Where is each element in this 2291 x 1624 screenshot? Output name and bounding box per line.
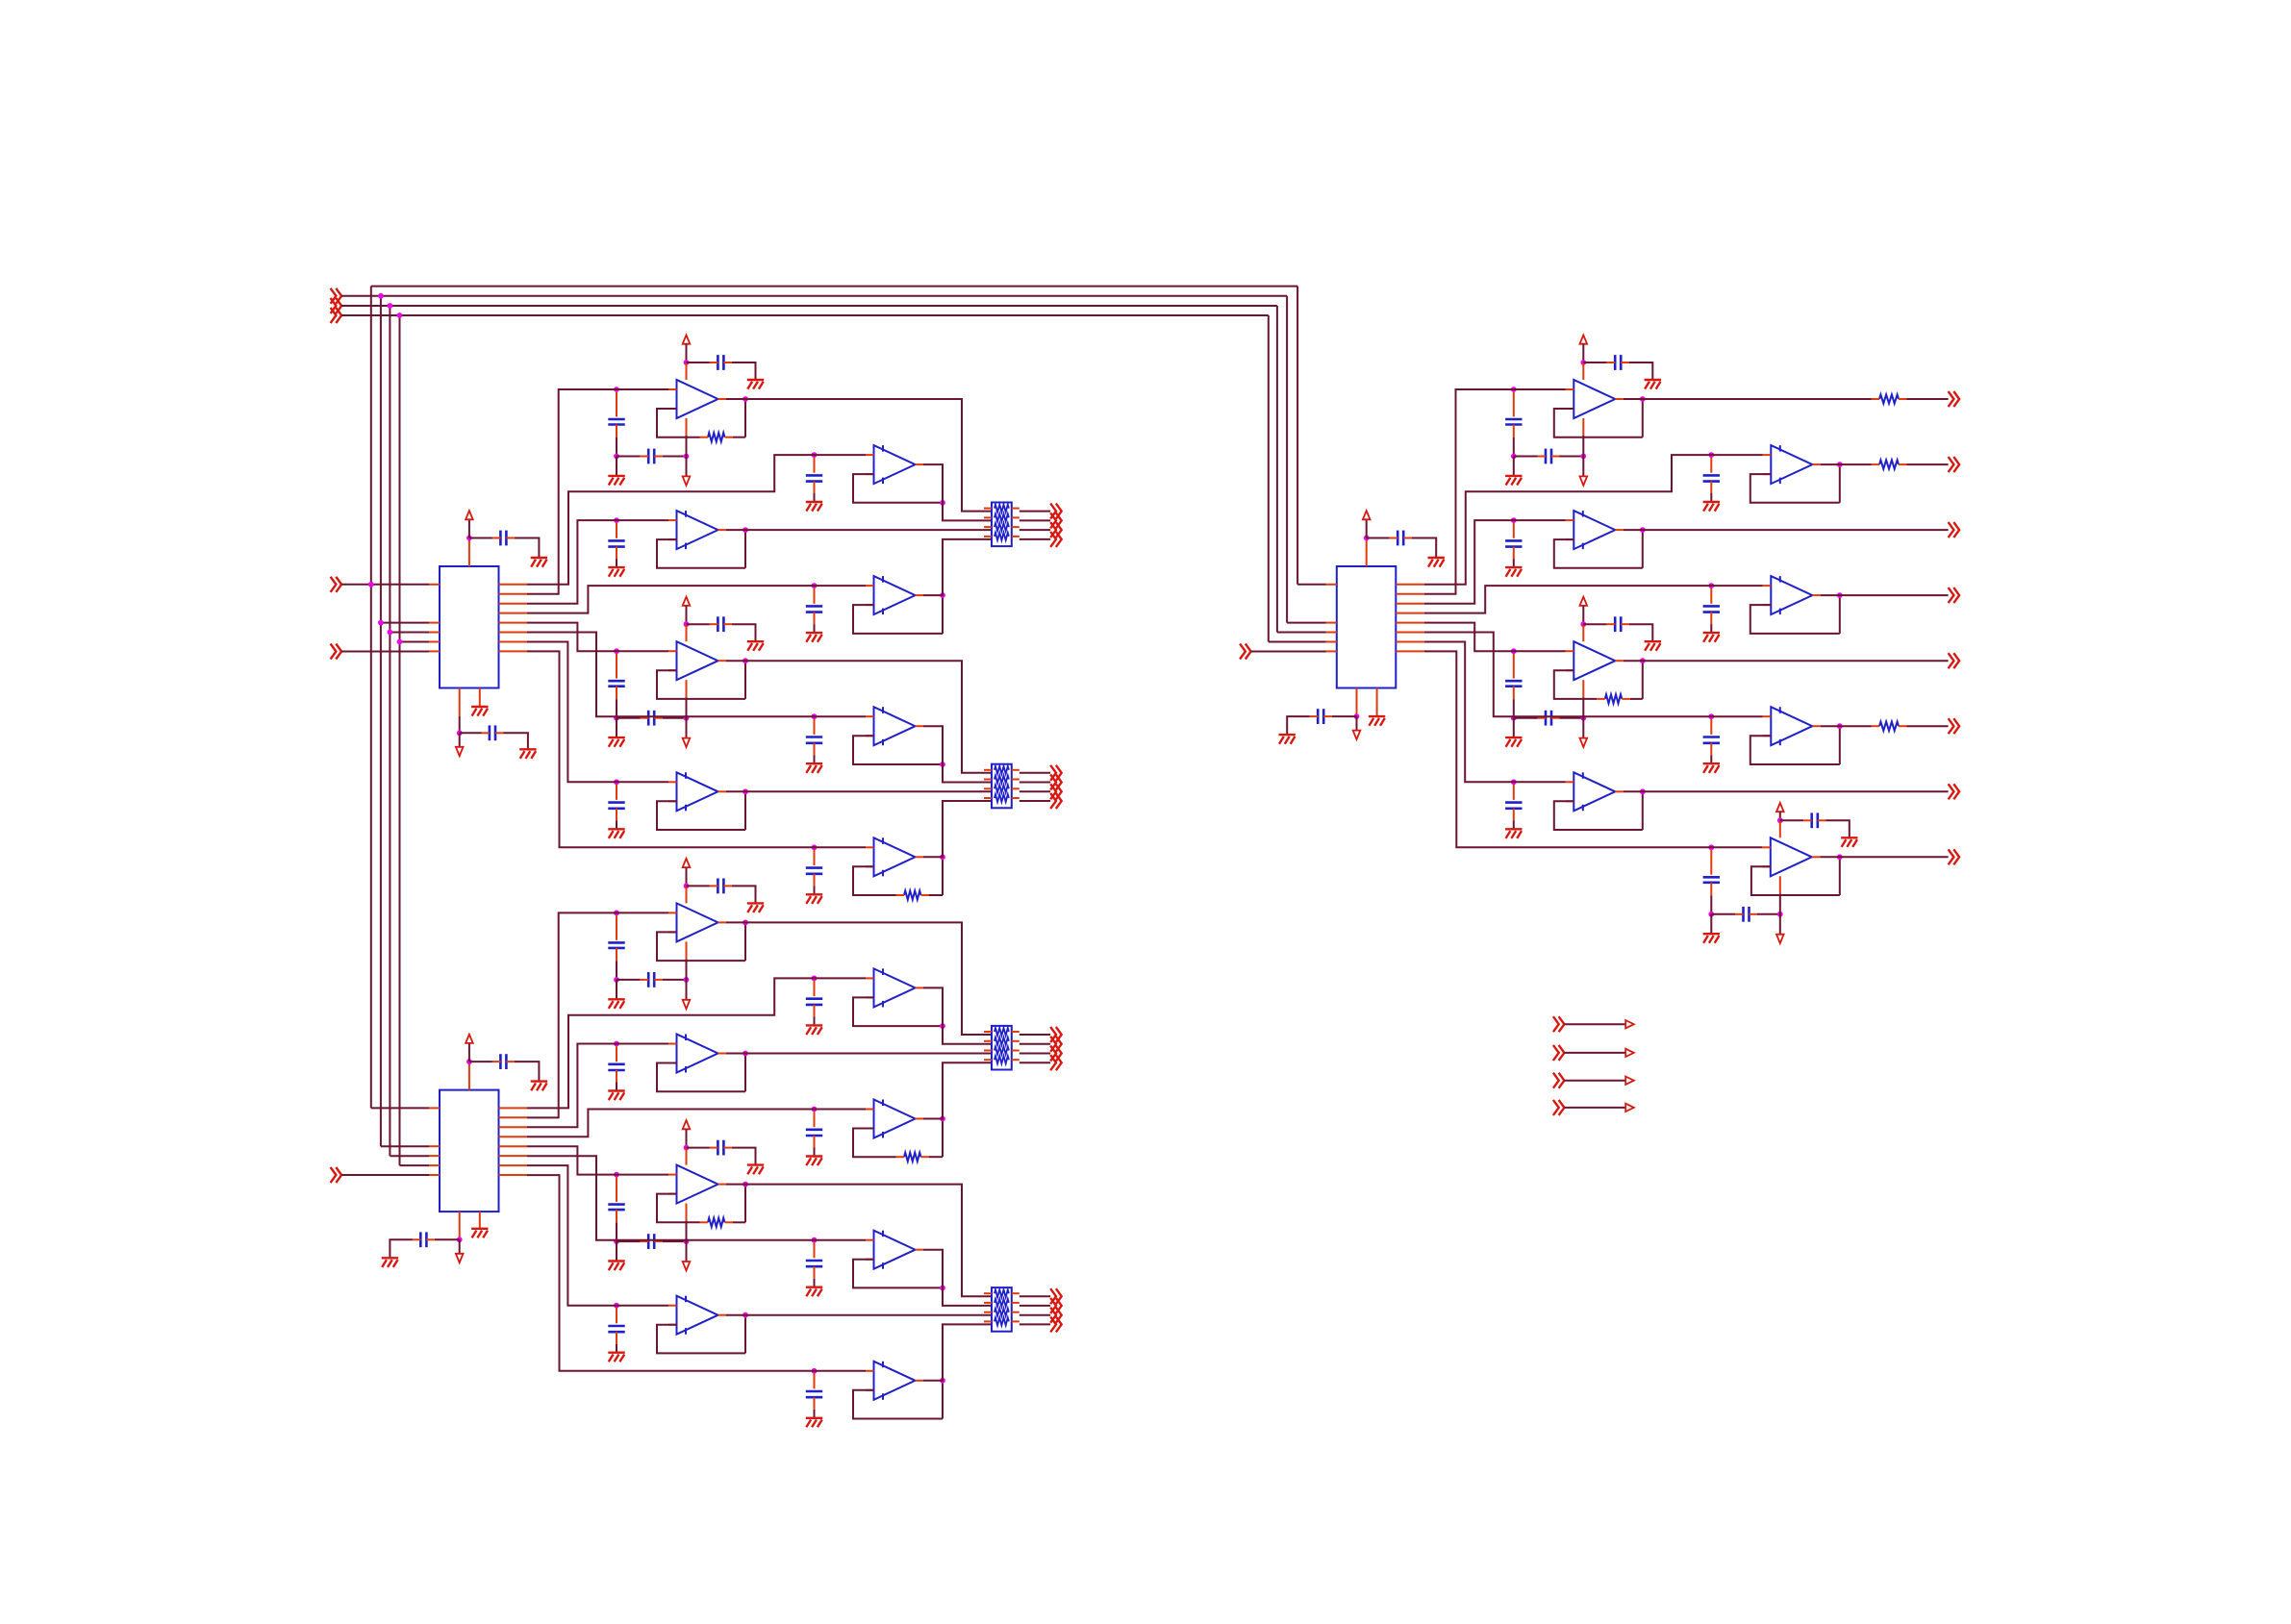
wire U26 output <box>1624 790 1949 792</box>
op-amp U26 buffer <box>1566 772 1624 811</box>
wire C15i to ground <box>814 1148 816 1157</box>
wire U2 pin5 to ch13 input <box>527 1146 617 1174</box>
wire RN2 output 3 <box>1020 790 1050 792</box>
junction U22 output <box>1640 527 1646 533</box>
wire U23 output <box>1821 594 1949 596</box>
ground C24i <box>1505 737 1522 747</box>
output port chevron OUT12 <box>1050 1055 1062 1070</box>
capacitor C27h <box>1735 907 1757 922</box>
ground C22i <box>1505 567 1522 577</box>
junction U20 output <box>1640 396 1646 402</box>
capacitor C4d decoupling <box>710 355 732 370</box>
IC U1 -V pin stub <box>459 688 461 717</box>
capacitor C23i input filter <box>1703 588 1720 624</box>
wire U25 output b <box>1907 725 1949 727</box>
junction U9 loop <box>940 762 945 767</box>
ground C12d <box>747 903 764 912</box>
junction U13 loop <box>940 1023 945 1029</box>
wire bus N4 to U3 <box>1269 641 1326 643</box>
wire U25 feedback <box>1750 736 1840 764</box>
wire U2 pin7 to ch15 input <box>527 1165 617 1306</box>
wire U2 pin8 to ch16 input <box>527 1175 815 1371</box>
power flag -V U24 <box>1580 738 1588 747</box>
junction U27 VCC <box>1777 817 1783 823</box>
junction U12 input <box>614 911 619 916</box>
wire U5 output to pack <box>923 464 992 520</box>
wire C19i to ground <box>814 1410 816 1418</box>
power flag -V U27 <box>1776 935 1784 943</box>
capacitor C4h <box>641 449 663 464</box>
wire U24 output <box>1624 660 1949 662</box>
wire RN4 output 1 <box>1020 1295 1050 1297</box>
junction U27 -V node <box>1777 912 1783 917</box>
output port chevron OUTR3 <box>1949 522 1960 537</box>
junction U3 -V <box>1354 713 1360 719</box>
input port chevron IN6 <box>331 1167 342 1183</box>
wire U10 output to pack <box>726 790 992 792</box>
wire U9 feedback up <box>942 726 944 764</box>
junction U1 VCC <box>466 536 472 541</box>
ground C15i <box>806 1157 822 1166</box>
capacitor C17i input filter <box>806 1242 822 1278</box>
capacitor C16h <box>641 1234 663 1249</box>
wire U4 VCC to cap <box>687 362 710 363</box>
op-amp U8 driver <box>668 641 726 680</box>
junction U10 input <box>614 779 619 785</box>
output port chevron OUT13 <box>1050 1288 1062 1304</box>
op-amp U14 buffer <box>668 1035 726 1073</box>
output port chevron OUT8 <box>1050 793 1062 809</box>
pin U27 V- stub <box>1779 876 1781 893</box>
op-amp U24 driver <box>1566 641 1624 680</box>
output port chevron OUT3 <box>1050 522 1062 537</box>
power flag -V U1 <box>456 747 464 756</box>
capacitor C4i input filter <box>608 392 624 437</box>
wire RN4 output 3 <box>1020 1314 1050 1316</box>
junction U10 output <box>743 788 748 794</box>
wire RN3 output 3 <box>1020 1053 1050 1055</box>
wire C16h right <box>663 1240 687 1242</box>
wire U6 feedback <box>657 539 745 568</box>
op-amp U5 buffer <box>866 445 923 484</box>
junction U20 input <box>1511 387 1517 392</box>
wire U8 feedback up <box>744 661 746 699</box>
capacitor C27d decoupling <box>1803 812 1825 828</box>
wire C24d to ground <box>1629 624 1653 641</box>
ground C17i <box>806 1287 822 1297</box>
wire U16 output to pack <box>726 1185 992 1297</box>
junction U24 input <box>1511 648 1517 654</box>
wire U16 VCC stem <box>686 1129 688 1147</box>
power flag +V U8 <box>683 597 691 606</box>
wire U27 VCC to cap <box>1780 819 1803 821</box>
ground C19i <box>806 1418 822 1428</box>
ground U1 pin <box>471 707 488 716</box>
power flag -V U20 <box>1580 476 1588 485</box>
IC U2 right pins 1-8 <box>499 1108 528 1175</box>
output port chevron OUT2 <box>1050 512 1062 528</box>
pin U12 V- stub <box>686 941 688 959</box>
power flag -V U3 <box>1353 731 1361 739</box>
wire U4 feedback a <box>657 409 700 437</box>
wire U7 feedback up <box>942 595 944 634</box>
junction U26 output <box>1640 788 1646 794</box>
wire bus N3 tap to U1 <box>390 632 429 634</box>
output port chevron OUT15 <box>1050 1308 1062 1323</box>
resistor R11f feedback <box>896 890 930 899</box>
junction U15 output <box>940 1116 945 1122</box>
wire U1 cap to ground <box>515 538 540 559</box>
power flag +V U27 <box>1776 803 1784 812</box>
ground C4i <box>608 476 624 486</box>
wire U2 cap2 to ground <box>390 1239 413 1258</box>
bus wire net N3 right vertical <box>1276 306 1278 633</box>
wire bus N2 to U3 <box>1287 622 1326 624</box>
junction U20 VCC <box>1580 360 1586 365</box>
junction U14 input <box>614 1041 619 1047</box>
ground C18i <box>608 1353 624 1362</box>
wire U11 feedback b <box>929 894 943 896</box>
op-amp U15 buffer <box>866 1100 923 1138</box>
wire U3 pin5 to ch5 input <box>1424 623 1514 652</box>
wire RN1 output 3 <box>1020 529 1050 531</box>
op-amp U18 buffer <box>668 1296 726 1335</box>
wire U10 input <box>617 781 668 783</box>
wire U2 pin3 to ch11 input <box>527 1044 617 1128</box>
legend arrowhead P3 <box>1625 1077 1634 1085</box>
wire U2 pin4 to ch12 input <box>527 1110 815 1137</box>
capacitor C19i input filter <box>806 1374 822 1410</box>
wire RN4 output 4 <box>1020 1323 1050 1325</box>
IC U3 GND pin stub <box>1376 688 1378 716</box>
junction U16 output <box>743 1182 748 1187</box>
IC U1 VCC pin stub <box>468 538 470 567</box>
wire C16 to ground <box>616 1241 617 1261</box>
op-amp U13 buffer <box>866 968 923 1007</box>
junction U24 -V node <box>1580 715 1586 721</box>
wire U1 pin3 to ch3 input <box>527 520 617 604</box>
wire C27h left <box>1711 913 1735 915</box>
wire U14 input <box>617 1043 668 1045</box>
wire U15 feedback up <box>942 1119 944 1158</box>
wire U18 output to pack <box>726 1314 992 1316</box>
wire RN2 output 1 <box>1020 772 1050 774</box>
ground C23i <box>1703 633 1720 642</box>
wire U2 pin2 to ch9 input <box>527 912 617 1117</box>
wire U8 -V stem <box>686 697 688 737</box>
junction U5 loop <box>940 500 945 506</box>
wire U27 feedback <box>1751 866 1840 895</box>
power flag +V U1 <box>466 511 473 519</box>
wire U27 input <box>1711 846 1762 848</box>
wire C25i to ground <box>1710 755 1712 763</box>
wire U14 feedback up <box>744 1054 746 1092</box>
wire U16 feedback a <box>657 1194 700 1223</box>
wire U3 VCC stem <box>1366 519 1368 537</box>
wire U10 feedback <box>657 801 745 830</box>
ground U3 bottom <box>1279 735 1296 744</box>
wire U12 feedback up <box>744 922 746 961</box>
junction U24 VCC <box>1580 621 1586 627</box>
wire U23 feedback <box>1750 605 1840 634</box>
wire C24h right <box>1560 717 1584 719</box>
output port chevron OUTR1 <box>1949 391 1960 407</box>
bus wire net N1 left vertical <box>370 287 372 1109</box>
IC U1 GND pin stub <box>479 688 481 707</box>
wire U2 -V stem <box>459 1239 461 1254</box>
wire U9 output to pack <box>923 726 992 782</box>
wire U10 feedback up <box>744 791 746 830</box>
wire U2 pin6 to ch14 input <box>527 1156 815 1240</box>
wire U1 pin5 to ch5 input <box>527 623 617 652</box>
ground C13i <box>806 1025 822 1035</box>
wire bus N3 to U2 <box>390 1155 429 1157</box>
wire U20 feedback <box>1554 409 1643 437</box>
wire bus N1 to U2 <box>371 1107 429 1109</box>
wire C20d to ground <box>1629 362 1653 380</box>
wire U9 input <box>815 715 867 717</box>
ground C14i <box>608 1091 624 1101</box>
wire C13i to ground <box>814 1016 816 1025</box>
bus wire net N4 horizontal <box>341 314 1269 316</box>
junction C24 node <box>1511 715 1517 721</box>
junction U13 input <box>812 976 818 982</box>
wire U7 input <box>815 585 867 587</box>
wire C16i down <box>616 1223 617 1242</box>
wire C14i to ground <box>616 1083 617 1091</box>
legend port chevron P2 <box>1553 1045 1565 1061</box>
resistor R16f feedback <box>700 1218 734 1227</box>
ground U2 pin <box>471 1229 488 1238</box>
resistor network RN1 <box>984 503 1020 547</box>
bus wire net N2 horizontal <box>341 295 1287 297</box>
wire RN3 output 2 <box>1020 1043 1050 1045</box>
junction U12 output <box>743 920 748 926</box>
wire C4h left <box>617 456 641 458</box>
output port chevron OUTR8 <box>1949 849 1960 864</box>
wire U20 feedback up <box>1642 399 1644 437</box>
resistor R4f feedback <box>700 433 734 441</box>
capacitor C12d decoupling <box>710 879 732 894</box>
wire C20 to ground <box>1513 457 1515 476</box>
wire U14 output to pack <box>726 1053 992 1055</box>
capacitor C-U1b bulk <box>482 725 504 740</box>
wire C27d to ground <box>1825 820 1850 837</box>
junction U22 input <box>1511 517 1517 523</box>
junction U18 output <box>743 1312 748 1318</box>
input port chevron IN5 <box>331 644 342 660</box>
wire C27h right <box>1757 913 1780 915</box>
wire U3 -V stem <box>1356 716 1358 731</box>
wire U19 input <box>815 1370 867 1372</box>
wire C12 to ground <box>616 980 617 999</box>
pin U24 V+ stub <box>1582 624 1584 641</box>
wire U3 -V pin <box>1356 715 1358 717</box>
wire U15 feedback a <box>853 1129 896 1158</box>
wire U23 input <box>1711 585 1763 587</box>
legend port chevron P1 <box>1553 1016 1565 1032</box>
junction bus N4 tap U1 <box>397 639 403 645</box>
junction U3 VCC <box>1364 536 1370 541</box>
wire RN1 output 4 <box>1020 538 1050 540</box>
wire U4 -V stem <box>686 436 688 476</box>
op-amp U19 buffer <box>866 1362 923 1400</box>
wire U2 VCC stem <box>468 1043 470 1062</box>
capacitor C15i input filter <box>806 1112 822 1147</box>
junction U17 loop <box>940 1286 945 1291</box>
junction U23 output <box>1837 592 1843 598</box>
output port chevron OUTR7 <box>1949 784 1960 799</box>
junction C8 node <box>614 715 619 721</box>
wire U9 feedback <box>853 736 943 764</box>
wire U16 VCC to cap <box>687 1147 710 1149</box>
ground C4d <box>747 380 764 389</box>
power flag +V U24 <box>1580 597 1588 606</box>
ground U1 bottom <box>519 749 536 759</box>
wire U16 -V stem <box>686 1221 688 1262</box>
power flag -V U4 <box>683 476 691 485</box>
wire U11 feedback a <box>853 866 896 895</box>
capacitor C16d decoupling <box>710 1140 732 1156</box>
capacitor C7i input filter <box>806 588 822 624</box>
junction U15 input <box>812 1107 818 1112</box>
IC U3 VCC pin stub <box>1366 538 1368 567</box>
wire bus N2 to U2 <box>381 1145 429 1147</box>
wire C8h right <box>663 717 687 719</box>
wire U17 output to pack <box>923 1250 992 1306</box>
capacitor C6i input filter <box>608 523 624 559</box>
junction bus N1 tap U1 <box>368 582 374 587</box>
wire U16 feedback b <box>733 1221 745 1223</box>
wire U14 feedback <box>657 1063 745 1092</box>
capacitor C12h <box>641 972 663 987</box>
wire U20 VCC to cap <box>1583 362 1606 363</box>
wire U24 input <box>1514 650 1566 652</box>
IC U2 body <box>440 1090 499 1212</box>
ground C8d <box>747 641 764 651</box>
output port chevron OUTR5 <box>1949 653 1960 668</box>
junction U27 input <box>1708 844 1714 850</box>
wire U2 to decoupling cap <box>469 1061 492 1062</box>
bus wire net N2 left vertical <box>380 296 382 1146</box>
wire RN2 output 4 <box>1020 800 1050 802</box>
wire U4 feedback up <box>744 399 746 437</box>
junction C12 node <box>614 977 619 983</box>
capacitor C22i input filter <box>1505 523 1522 559</box>
ground C8i <box>608 737 624 747</box>
junction U18 input <box>614 1303 619 1309</box>
wire U27 -V stem <box>1779 893 1781 934</box>
capacitor C14i input filter <box>608 1046 624 1082</box>
wire C20i down <box>1513 437 1515 457</box>
junction U8 output <box>743 658 748 663</box>
capacitor C-U2a decoupling <box>492 1054 515 1069</box>
wire U12 VCC to cap <box>687 885 710 887</box>
wire C12i down <box>616 961 617 980</box>
junction U19 output <box>940 1378 945 1384</box>
wire U1 -V pin <box>459 716 461 733</box>
capacitor C-U3a decoupling <box>1390 531 1412 546</box>
wire U1 -V stem <box>459 733 461 747</box>
capacitor C8h <box>641 711 663 726</box>
wire U25 input <box>1711 715 1763 717</box>
wire U2 pin1 to ch10 input <box>527 978 815 1108</box>
wire U19 output to pack <box>923 1324 992 1380</box>
junction U12 VCC <box>684 884 690 889</box>
wire U27 output <box>1820 856 1948 858</box>
power flag +V U20 <box>1580 336 1588 344</box>
op-amp U6 buffer <box>668 511 726 549</box>
wire U3 pin1 to ch2 input <box>1424 455 1712 585</box>
ground C16d <box>747 1165 764 1175</box>
wire U6 feedback up <box>744 530 746 568</box>
output port chevron OUT10 <box>1050 1037 1062 1052</box>
op-amp U22 buffer <box>1566 511 1624 549</box>
junction U16 -V node <box>684 1238 690 1244</box>
legend arrowhead P2 <box>1625 1049 1634 1057</box>
capacitor C8d decoupling <box>710 616 732 632</box>
junction U11 output <box>940 854 945 860</box>
power flag +V U3 <box>1363 511 1371 519</box>
IC U2 -V pin stub <box>459 1212 461 1240</box>
junction U17 input <box>812 1237 818 1243</box>
output port chevron OUT7 <box>1050 784 1062 799</box>
wire C18i to ground <box>616 1344 617 1353</box>
input port chevron IN2 <box>331 298 342 313</box>
capacitor C10i input filter <box>608 785 624 820</box>
capacitor C20d decoupling <box>1607 355 1629 370</box>
wire C16d to ground <box>732 1148 756 1165</box>
wire U2 -V to cap <box>435 1238 460 1240</box>
power flag -V U8 <box>683 738 691 747</box>
junction U16 VCC <box>684 1145 690 1151</box>
wire U15 input <box>815 1109 867 1111</box>
capacitor C20h <box>1538 449 1560 464</box>
wire U26 input <box>1514 781 1566 783</box>
wire bus N4 tap to U1 <box>400 641 430 643</box>
output port chevron OUTR2 <box>1949 457 1960 472</box>
output port chevron OUTR4 <box>1949 587 1960 603</box>
IC U1 right pins 1-8 <box>499 585 528 652</box>
capacitor C16i input filter <box>608 1177 624 1222</box>
ground C27i <box>1703 934 1720 943</box>
wire U8 VCC stem <box>686 606 688 624</box>
capacitor C13i input filter <box>806 981 822 1016</box>
bus wire net N4 left vertical <box>399 315 401 1165</box>
legend wire P3 <box>1564 1080 1625 1082</box>
wire bus N1 to U3 <box>1297 584 1326 586</box>
output port chevron OUT4 <box>1050 532 1062 547</box>
bus wire net N3 left vertical <box>389 306 390 1156</box>
wire U3 pin7 to ch7 input <box>1424 642 1514 783</box>
capacitor C26i input filter <box>1505 785 1522 820</box>
wire U18 feedback <box>657 1325 745 1354</box>
bus wire net N1 right vertical <box>1297 287 1298 585</box>
IC U2 VCC pin stub <box>468 1062 470 1090</box>
wire IN5 to U1 pin <box>341 651 429 653</box>
legend arrowhead P4 <box>1625 1104 1634 1112</box>
wire RN3 output 1 <box>1020 1034 1050 1036</box>
wire U15 feedback b <box>929 1156 943 1158</box>
junction U7 output <box>940 592 945 598</box>
wire U1 pin6 to ch6 input <box>527 633 815 717</box>
wire bus N2 tap to U1 <box>381 622 429 624</box>
wire C22i to ground <box>1513 559 1515 567</box>
capacitor C11i input filter <box>806 850 822 886</box>
power flag +V U16 <box>683 1120 691 1129</box>
junction U6 input <box>614 517 619 523</box>
wire U18 input <box>617 1305 668 1307</box>
